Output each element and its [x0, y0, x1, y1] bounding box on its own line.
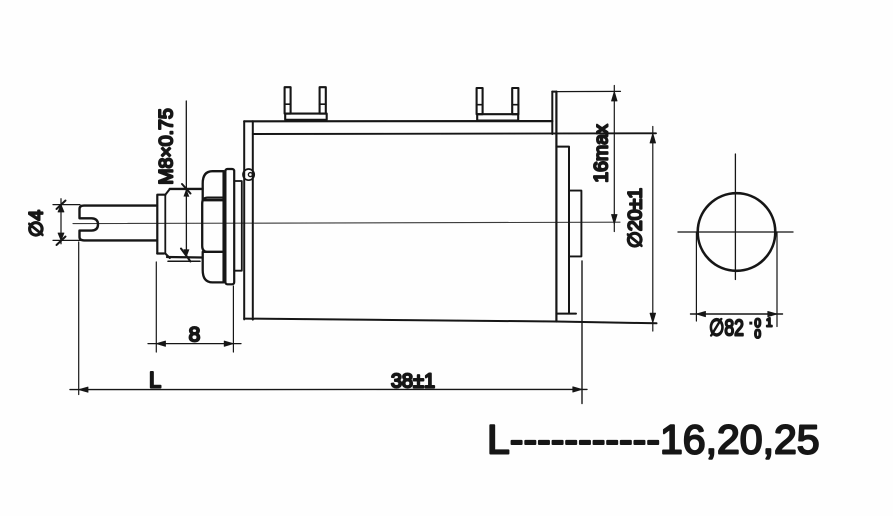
dimension L 38±1 — [70, 242, 587, 404]
svg-text:16max: 16max — [591, 124, 613, 183]
centerline — [73, 222, 620, 223]
svg-text:0: 0 — [755, 329, 761, 341]
washer — [225, 169, 234, 284]
dimension Ø4 — [53, 199, 86, 245]
locating lug — [243, 169, 254, 180]
svg-text:∅4: ∅4 — [27, 210, 48, 238]
top tab — [552, 92, 556, 134]
body — [244, 92, 656, 324]
dimension Ø20±1 — [650, 127, 656, 332]
terminal pins group 2 — [477, 88, 519, 121]
terminal pins group 1 — [285, 87, 327, 120]
dimension Ø82 — [691, 232, 783, 327]
end step — [569, 191, 581, 257]
bushing — [157, 189, 202, 261]
mounting flange — [244, 121, 253, 319]
svg-text:1: 1 — [766, 318, 772, 330]
label Ø82 +0.1/0 — [709, 315, 772, 342]
hex nut — [202, 171, 223, 282]
thread leader M8x0.75 — [181, 101, 191, 262]
dimension 16max — [556, 86, 620, 232]
svg-text:M8×0.75: M8×0.75 — [156, 108, 178, 185]
svg-text:L: L — [149, 368, 161, 393]
rear view circle — [678, 154, 793, 280]
svg-text:∅82: ∅82 — [709, 315, 744, 341]
svg-text:L-----------16,20,25: L-----------16,20,25 — [487, 417, 820, 463]
end cap — [556, 147, 576, 314]
svg-text:38±1: 38±1 — [391, 371, 435, 393]
svg-text:8: 8 — [189, 324, 201, 347]
svg-text:∅20±1: ∅20±1 — [625, 188, 647, 248]
shaft — [80, 206, 158, 241]
dimension 8 — [148, 262, 241, 352]
boss — [234, 181, 242, 271]
